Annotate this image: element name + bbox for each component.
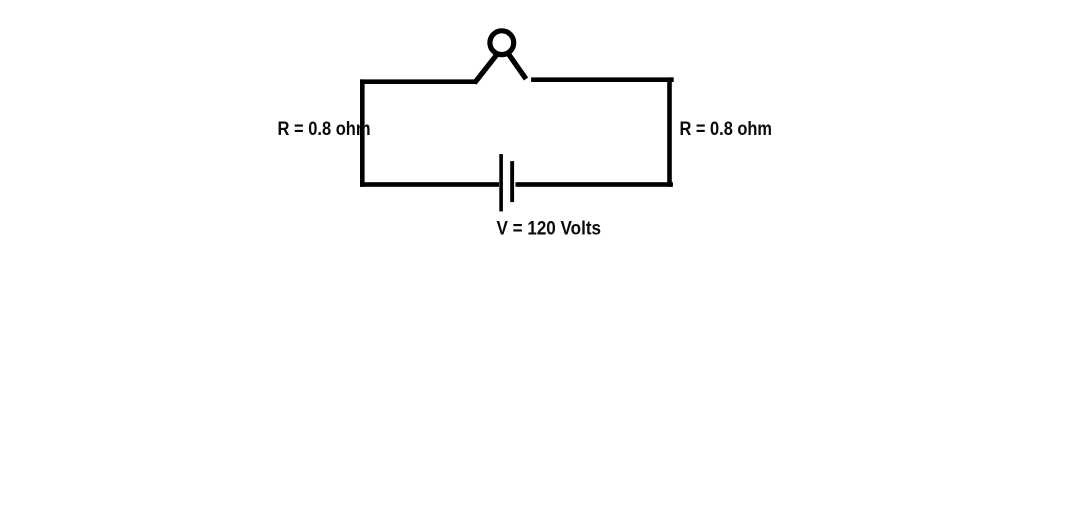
wire bottom-left segment [360, 182, 499, 187]
wire top-right segment [531, 77, 674, 82]
battery V1 long plate [499, 154, 503, 211]
wire right vertical [667, 77, 672, 186]
svg-text:R = 0.8 ohm: R = 0.8 ohm [680, 118, 773, 140]
lamp L1 bulb circle [490, 31, 514, 55]
wire bottom-right segment [516, 182, 673, 187]
battery V1 short plate [510, 161, 514, 202]
wire left vertical [360, 79, 365, 186]
lamp right lead wire [509, 54, 527, 79]
svg-text:V = 120 Volts: V = 120 Volts [497, 218, 602, 240]
lamp left lead wire [475, 55, 497, 83]
svg-text:R = 0.8 ohm: R = 0.8 ohm [278, 118, 371, 140]
wire top-left segment [360, 79, 477, 84]
